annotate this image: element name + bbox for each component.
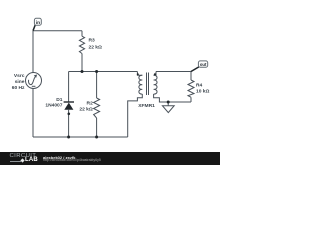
phase dot primary <box>137 73 139 75</box>
node flag out <box>191 61 208 72</box>
svg-text:60 Hz: 60 Hz <box>12 85 25 91</box>
wire top from in-corner to R3 top <box>33 30 82 32</box>
CircuitLab logo CIRCUIT <box>10 153 37 159</box>
svg-text:D1: D1 <box>56 97 63 103</box>
svg-text:in: in <box>36 20 40 26</box>
label Vsrc sine 60 Hz <box>12 73 25 91</box>
resistor R2 <box>94 98 100 118</box>
wire D1 cathode lead <box>68 72 70 103</box>
credits text <box>43 155 75 160</box>
wire node row primary <box>69 71 138 73</box>
wire R2 top lead <box>96 72 98 99</box>
wire secondary top <box>156 71 191 73</box>
junction dot bottom D1 <box>67 136 70 139</box>
resistor R4 <box>188 80 194 97</box>
svg-text:R2: R2 <box>87 100 94 106</box>
wire R4 bottom lead <box>190 97 192 102</box>
watermark bar <box>0 152 220 165</box>
svg-text:XFMR1: XFMR1 <box>138 103 155 109</box>
wire left rail lower <box>32 89 34 138</box>
junction dot bottom R2 <box>95 136 98 139</box>
resistor R3 <box>79 36 84 53</box>
svg-text:R3: R3 <box>89 38 96 44</box>
svg-text:sine: sine <box>15 79 25 85</box>
label R4 10 kOhm <box>196 82 210 94</box>
wire left rail upper <box>32 31 34 73</box>
svg-text:1N4007: 1N4007 <box>45 103 62 109</box>
label R3 22 kOhm <box>89 38 103 51</box>
svg-text:10 kΩ: 10 kΩ <box>196 88 210 94</box>
source Vsrc <box>26 73 42 89</box>
wire primary bottom return <box>128 94 143 137</box>
svg-text:out: out <box>200 62 207 67</box>
wire R3 bottom lead <box>81 54 83 72</box>
transformer XFMR1 <box>137 72 157 96</box>
wire secondary bottom <box>154 94 191 102</box>
svg-text:22 kΩ: 22 kΩ <box>89 45 103 51</box>
junction dot node row R3 <box>81 70 84 73</box>
label R2 22 kOhm <box>79 100 93 112</box>
wire bottom rail <box>33 136 128 138</box>
ground <box>162 102 174 113</box>
svg-text:Vsrc: Vsrc <box>14 73 25 79</box>
junction dot node row R2 <box>95 70 98 73</box>
CircuitLab logo LAB row <box>10 159 38 164</box>
diode D1 <box>64 102 74 115</box>
wire R3 top lead <box>81 31 83 37</box>
label D1 1N4007 <box>45 97 62 109</box>
node flag in <box>33 18 41 30</box>
phase dot secondary <box>154 73 156 75</box>
wire R2 bottom lead <box>96 118 98 137</box>
wire R4 top lead <box>190 72 192 81</box>
wire D1 anode lead <box>68 110 70 137</box>
svg-text:22 kΩ: 22 kΩ <box>79 106 93 112</box>
junction dot ground <box>167 101 170 104</box>
svg-text:R4: R4 <box>196 82 203 88</box>
